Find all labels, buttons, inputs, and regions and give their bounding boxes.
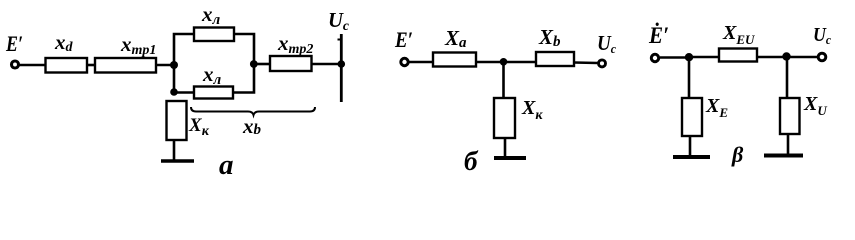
svg-text:Xa: Xa xyxy=(444,26,467,51)
value label Xk (circuit b) xyxy=(521,97,543,123)
value label xl bottom xyxy=(202,62,222,88)
wire Xu to ground xyxy=(787,134,790,154)
svg-text:E′: E′ xyxy=(5,31,23,56)
wire Xa to node xyxy=(476,61,504,64)
svg-text:Uc: Uc xyxy=(328,8,350,34)
label E' (circuit b) xyxy=(394,27,413,52)
wire E' to xd xyxy=(20,64,46,67)
value label Xk (circuit a) xyxy=(188,115,210,139)
svg-text:Uc: Uc xyxy=(597,31,616,56)
wire Xeu to right node xyxy=(757,56,787,59)
node A (junction after xtr1) xyxy=(170,61,178,69)
reactor Xe (vertical) xyxy=(682,98,702,136)
terminal E' (circuit b) xyxy=(401,58,408,65)
value label Xeu xyxy=(722,22,755,47)
ground (circuit b) xyxy=(494,156,526,160)
terminal Uc (circuit b) xyxy=(599,60,606,67)
svg-text:XЕ: XЕ xyxy=(705,95,728,120)
wire node down to Xk xyxy=(502,62,505,98)
svg-text:Xb: Xb xyxy=(538,25,561,50)
svg-text:xл: xл xyxy=(201,2,221,28)
wire xtr1 to node A xyxy=(156,64,174,67)
wire Xb to Uc terminal xyxy=(574,61,598,64)
svg-text:E′: E′ xyxy=(394,27,413,52)
terminal E' (circuit a) xyxy=(12,61,19,68)
label Uc (circuit v) xyxy=(813,24,831,47)
value label Xu xyxy=(803,93,827,118)
value label xtr1 xyxy=(120,32,156,58)
wire E' to Xa xyxy=(410,61,434,64)
svg-text:а: а xyxy=(219,149,234,178)
value label Xb xyxy=(538,25,561,50)
reactor xk (circuit a, vertical) xyxy=(167,101,187,140)
svg-text:Ė′: Ė′ xyxy=(648,22,669,48)
right node (circuit v) xyxy=(782,52,790,60)
value label Xe xyxy=(705,95,728,120)
node (circuit b) xyxy=(500,58,508,66)
reactor Xk (circuit b, vertical) xyxy=(494,98,515,138)
resistor xtr2 xyxy=(270,56,312,71)
node on Uc bus xyxy=(338,60,346,68)
ground (circuit a) xyxy=(161,159,194,163)
label Uc (circuit a) xyxy=(328,8,350,34)
wire xk to ground xyxy=(173,140,176,160)
svg-text:xтр2: xтр2 xyxy=(277,31,313,57)
resistor Xa xyxy=(433,53,476,67)
svg-text:XЕU: XЕU xyxy=(722,22,755,47)
resistor Xeu xyxy=(719,49,757,62)
wire node B to xtr2 xyxy=(254,63,270,66)
resistor xtr1 xyxy=(95,58,156,73)
wire node A down to node C xyxy=(173,65,176,92)
label E-dot' (circuit v) xyxy=(648,22,669,48)
wire left node to Xeu xyxy=(689,56,719,59)
wire Xk to ground xyxy=(504,138,507,157)
wire left node down to Xe xyxy=(688,57,691,98)
wire E' to left node xyxy=(660,56,689,59)
brace xb xyxy=(191,107,315,115)
value label xl top xyxy=(201,2,221,28)
svg-text:β: β xyxy=(731,142,744,167)
tick on Uc bus xyxy=(338,39,342,41)
value label xb xyxy=(242,114,262,138)
wire xtr2 to Uc bus xyxy=(312,63,342,66)
terminal Uc (circuit v) xyxy=(818,53,826,61)
wire node A up to top branch xyxy=(174,34,194,65)
ground (under Xe) xyxy=(673,155,710,159)
sub-figure label v xyxy=(731,142,744,167)
label Uc (circuit b) xyxy=(597,31,616,56)
value label Xa xyxy=(444,26,467,51)
wire xd to xtr1 xyxy=(87,64,95,67)
svg-text:Xк: Xк xyxy=(521,97,543,123)
ground (under Xu) xyxy=(764,154,803,158)
resistor xl bottom xyxy=(194,87,233,99)
wire right node to Uc terminal xyxy=(787,56,818,59)
sub-figure label b xyxy=(464,146,479,176)
wire node C to xl bottom xyxy=(174,91,194,94)
sub-figure label a xyxy=(219,149,234,181)
value label xtr2 xyxy=(277,31,313,57)
svg-text:б: б xyxy=(464,146,479,176)
resistor Xb xyxy=(536,52,574,66)
Uc bus bar (circuit a) xyxy=(340,34,343,102)
svg-text:XU: XU xyxy=(803,93,827,118)
svg-text:xb: xb xyxy=(242,114,262,138)
wire node to Xb xyxy=(504,61,537,64)
node B (junction before xtr2) xyxy=(250,60,258,68)
wire top branch to node B xyxy=(234,34,254,64)
resistor xd xyxy=(46,58,88,73)
label E' (source EMF, circuit a) xyxy=(5,31,23,56)
wire Xe to ground xyxy=(689,136,692,156)
svg-text:xл: xл xyxy=(202,62,222,88)
wire xl bottom to node B xyxy=(233,64,254,93)
left node (circuit v) xyxy=(685,53,693,61)
svg-text:xd: xd xyxy=(54,30,74,55)
resistor xl top xyxy=(194,28,234,42)
wire right node down to Xu xyxy=(786,57,789,98)
svg-text:Xк: Xк xyxy=(188,115,210,139)
node C (junction to xk branch) xyxy=(170,88,178,96)
svg-text:xтр1: xтр1 xyxy=(120,32,156,58)
svg-text:Uc: Uc xyxy=(813,24,831,47)
terminal E' (circuit v) xyxy=(651,54,658,61)
reactor Xu (vertical) xyxy=(780,98,800,134)
value label xd xyxy=(54,30,74,55)
